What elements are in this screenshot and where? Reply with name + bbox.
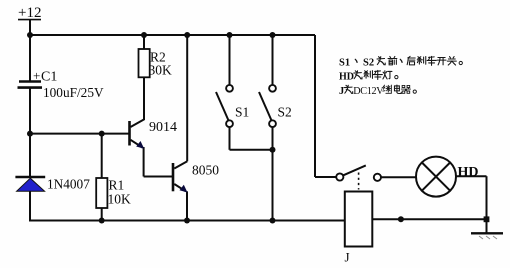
svg-text:J: J (339, 86, 344, 97)
svg-text:R1: R1 (109, 178, 125, 193)
svg-text:HD: HD (458, 165, 479, 180)
svg-text:100uF/25V: 100uF/25V (43, 85, 104, 100)
svg-text:S2: S2 (363, 58, 374, 69)
svg-text:1N4007: 1N4007 (47, 177, 90, 192)
svg-text:S1: S1 (235, 105, 249, 120)
svg-text:C1: C1 (41, 70, 57, 85)
svg-text:HD: HD (339, 72, 354, 83)
svg-text:8050: 8050 (192, 163, 219, 178)
svg-text:+: + (33, 68, 40, 83)
svg-text:S1: S1 (339, 58, 350, 69)
svg-text:+12: +12 (18, 5, 41, 21)
svg-text:10K: 10K (108, 192, 132, 207)
svg-text:9014: 9014 (149, 120, 177, 135)
svg-text:30K: 30K (149, 62, 173, 77)
svg-text:S2: S2 (278, 105, 292, 120)
svg-text:DC12V: DC12V (353, 86, 384, 97)
svg-text:J: J (345, 250, 350, 265)
